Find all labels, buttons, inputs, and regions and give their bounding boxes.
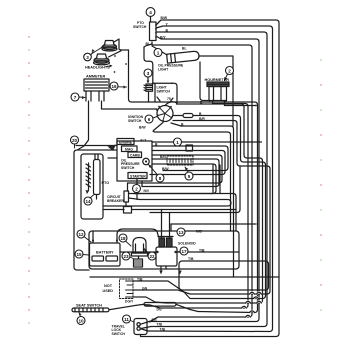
svg-text:20: 20 [72,138,78,143]
svg-text:SEAT SWITCH: SEAT SWITCH [76,303,102,307]
svg-text:T/B: T/B [188,257,194,261]
svg-text:SWITCH: SWITCH [112,332,126,336]
svg-text:T/B: T/B [157,323,163,327]
svg-text:5: 5 [188,174,191,179]
svg-text:7: 7 [74,95,77,100]
svg-text:BL: BL [146,42,151,46]
svg-text:AMMETER: AMMETER [86,75,105,79]
svg-text:SWITCH: SWITCH [157,90,171,94]
svg-text:8: 8 [159,176,162,181]
svg-text:6: 6 [148,117,151,122]
svg-text:18: 18 [120,236,126,241]
svg-text:4: 4 [149,10,152,15]
svg-text:13: 13 [178,230,184,235]
svg-text:N/B: N/B [196,230,202,234]
svg-text:HOURMETER: HOURMETER [205,78,230,82]
svg-text:ALT: ALT [140,139,147,143]
svg-text:GN: GN [142,286,148,290]
svg-text:CARB: CARB [130,154,140,158]
svg-text:10: 10 [78,318,84,323]
svg-text:DG: DG [157,308,162,312]
svg-text:3: 3 [147,71,150,76]
svg-text:MAG: MAG [125,148,133,152]
svg-text:N/V: N/V [144,189,150,193]
svg-text:USED: USED [103,289,114,293]
svg-text:T/B: T/B [199,248,205,252]
svg-text:15: 15 [76,252,82,257]
svg-text:B/W: B/W [162,167,169,171]
svg-text:B/W: B/W [139,125,146,129]
svg-text:16: 16 [111,84,117,89]
svg-text:11: 11 [124,317,129,322]
svg-text:1: 1 [176,140,179,145]
svg-text:22: 22 [149,254,155,259]
svg-text:23: 23 [123,254,129,259]
svg-text:14: 14 [85,199,91,204]
svg-text:B/W: B/W [161,16,168,20]
svg-text:1: 1 [157,50,160,55]
svg-text:NOT: NOT [104,284,113,288]
svg-text:T/B: T/B [137,277,143,281]
svg-text:HEADLIGHTS: HEADLIGHTS [85,65,110,69]
svg-text:12: 12 [78,232,84,237]
svg-text:LIGHT: LIGHT [158,68,169,72]
svg-text:SOLENOID: SOLENOID [178,242,196,246]
svg-text:17: 17 [181,249,187,254]
svg-text:75: 75 [167,97,171,101]
svg-text:B/R: B/R [199,117,205,121]
svg-text:B/Y: B/Y [160,36,166,40]
svg-text:T/B: T/B [160,328,166,332]
svg-text:DG/Y: DG/Y [125,300,134,304]
svg-text:SWITCH: SWITCH [121,166,135,170]
svg-text:ENGINE: ENGINE [119,141,133,145]
svg-text:SWITCH: SWITCH [128,119,142,123]
svg-text:BREAKER: BREAKER [107,199,124,203]
svg-text:3: 3 [86,55,89,60]
svg-text:DG: DG [152,318,157,322]
svg-text:2: 2 [228,68,231,73]
svg-text:BATTERY: BATTERY [96,251,114,255]
svg-text:PTO: PTO [102,181,110,185]
svg-text:2: 2 [135,186,138,191]
svg-text:STARTER: STARTER [130,174,146,178]
svg-text:SWITCH: SWITCH [133,25,147,29]
svg-text:BL: BL [182,47,187,51]
svg-text:B/N: B/N [160,155,166,159]
